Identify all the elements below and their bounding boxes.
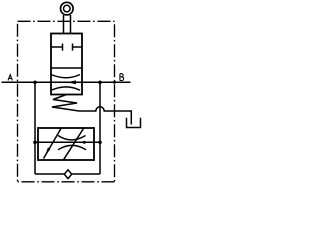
- roller inner circle: [64, 5, 71, 12]
- wire: A-B flow line: [2, 81, 131, 83]
- roller actuator stem: [63, 15, 65, 34]
- venturi lower arc of flow control valve: [58, 145, 86, 149]
- junction node at A line and left riser: [33, 81, 37, 85]
- deceleration valve position separator: [51, 67, 82, 69]
- wire: drain line to tank (with crossover hop): [79, 107, 131, 125]
- wire: right riser from B line down to bottom line: [99, 82, 101, 174]
- port label B: [120, 74, 124, 81]
- wire: left riser from A line down to bottom line: [34, 82, 36, 174]
- closed position symbol (blocked ports): [51, 44, 82, 51]
- roller (cam follower) outer circle: [61, 2, 74, 15]
- open throttled position: venturi lower arc: [51, 87, 80, 90]
- enclosure frame (dash-dot boundary): [18, 21, 115, 182]
- open throttled position: venturi upper arc: [51, 75, 80, 78]
- adjustability slash through venturi: [64, 129, 84, 160]
- junction node at B line and frame edge: [113, 81, 116, 84]
- flow control valve internal flow line: [35, 141, 100, 143]
- flow direction arrow in flow control valve: [80, 141, 86, 144]
- return spring: [52, 95, 79, 112]
- flow control valve V2 body: [38, 128, 94, 160]
- junction node at right riser and valve flow line: [98, 141, 102, 145]
- junction node at B line and right riser: [98, 81, 102, 85]
- port label A: [8, 75, 12, 81]
- wire: bottom return line: [35, 173, 100, 175]
- pressure compensator arrow: [44, 129, 62, 159]
- flow direction arrow in valve: [67, 80, 76, 84]
- tank (reservoir): [127, 118, 141, 128]
- venturi upper arc of flow control valve: [58, 136, 86, 140]
- filter / conditioner diamond on bottom line: [64, 170, 71, 179]
- deceleration valve V1 body: [51, 34, 82, 95]
- junction node at left riser and valve flow line: [33, 141, 37, 145]
